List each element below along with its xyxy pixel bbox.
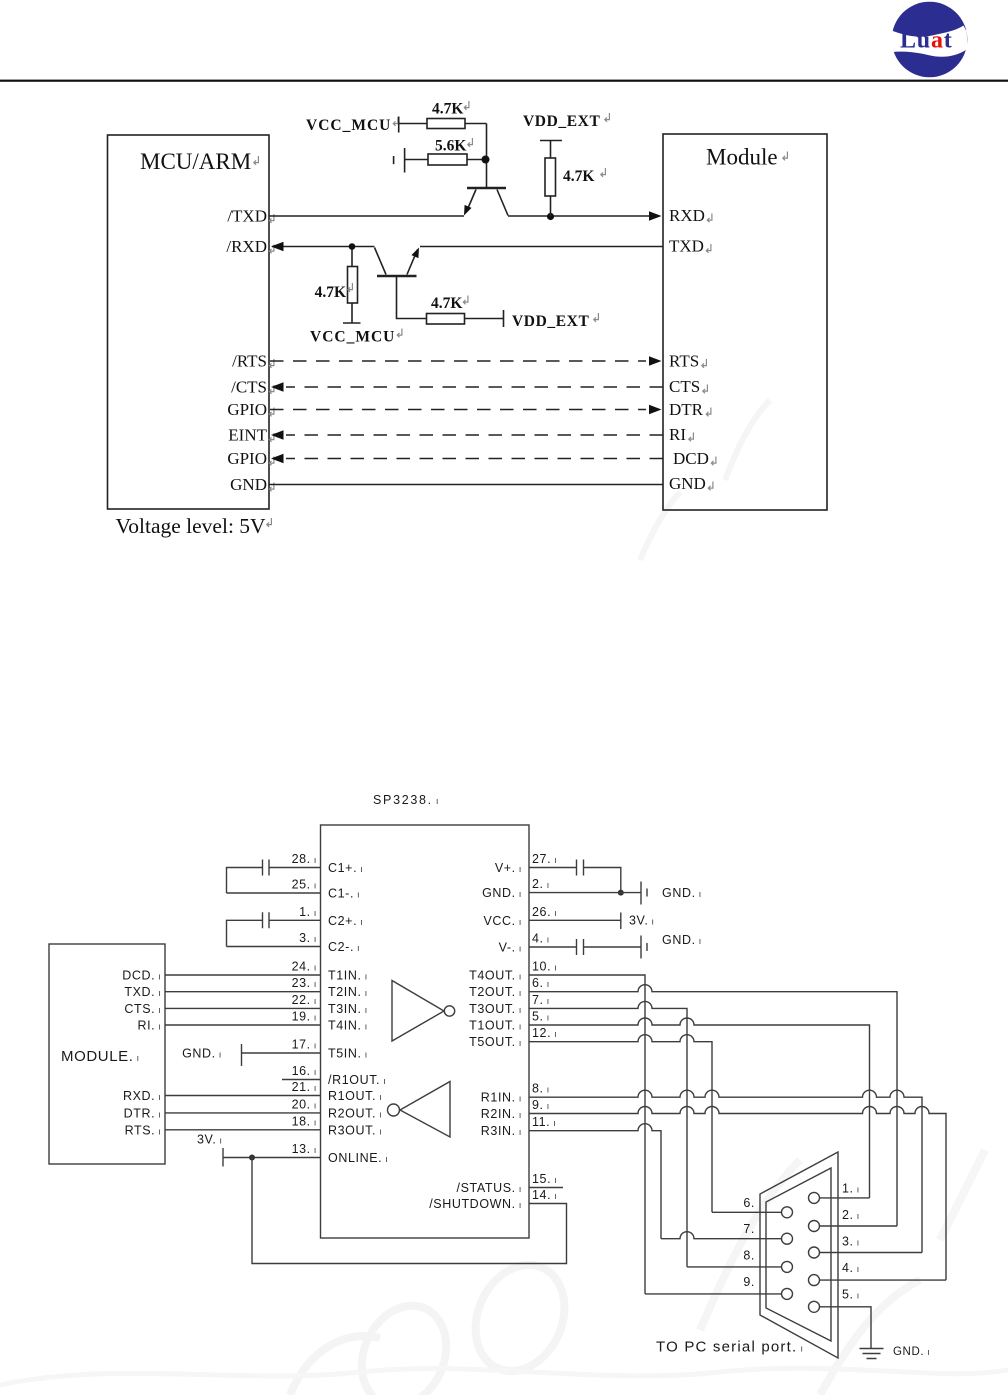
wire MODULE RTS to pin18 R3OUT bbox=[165, 1129, 321, 1131]
svg-text:3V.ı: 3V.ı bbox=[197, 1133, 223, 1147]
capacitor C1 (pins 28-25) bbox=[227, 868, 321, 894]
svg-text:1.ı: 1.ı bbox=[842, 1182, 860, 1196]
wire pin2 GND bbox=[529, 892, 641, 894]
svg-text:8.ı: 8.ı bbox=[532, 1082, 550, 1096]
arrowhead into Module RXD bbox=[649, 211, 662, 221]
svg-text:VDD_EXT: VDD_EXT bbox=[512, 313, 589, 330]
svg-text:GND.ı: GND.ı bbox=[482, 886, 522, 900]
earth ground symbol bbox=[860, 1349, 884, 1359]
svg-text:GPIO: GPIO bbox=[227, 400, 267, 419]
svg-text:R2IN.ı: R2IN.ı bbox=[481, 1107, 522, 1121]
wire DB9 pin6 bbox=[712, 1211, 782, 1213]
svg-text:4.7K: 4.7K bbox=[432, 101, 463, 118]
svg-text:6.: 6. bbox=[743, 1196, 755, 1210]
svg-text:T1IN.ı: T1IN.ı bbox=[328, 969, 368, 983]
capacitor C2 (pins 1-3) bbox=[227, 920, 321, 946]
MODULE box bbox=[49, 944, 165, 1164]
IC U1 SP3238 bbox=[321, 825, 530, 1238]
svg-text:C2+.ı: C2+.ı bbox=[328, 914, 363, 928]
svg-text:Voltage level: 5V: Voltage level: 5V bbox=[116, 514, 267, 538]
svg-text:GPIO: GPIO bbox=[227, 449, 267, 468]
svg-text:TXD.ı: TXD.ı bbox=[124, 985, 161, 999]
svg-text:T5IN.ı: T5IN.ı bbox=[328, 1047, 368, 1061]
svg-text:GND.ı: GND.ı bbox=[662, 933, 702, 947]
svg-text:R3OUT.ı: R3OUT.ı bbox=[328, 1123, 382, 1137]
svg-text:C2-.ı: C2-.ı bbox=[328, 940, 360, 954]
svg-text:/RXD: /RXD bbox=[226, 237, 267, 256]
svg-text:4.7K: 4.7K bbox=[563, 168, 594, 185]
svg-text:/SHUTDOWN.ı: /SHUTDOWN.ı bbox=[429, 1197, 522, 1211]
terminal bar VDD_EXT bbox=[540, 140, 562, 142]
wire VCC_MCU to R1 bbox=[399, 123, 427, 125]
wire DB9 pin9 bbox=[645, 1293, 782, 1295]
wire pin25 C1- bbox=[227, 892, 321, 894]
wire MODULE DTR to pin20 R2OUT bbox=[165, 1112, 321, 1114]
wire DB9 pin4 bbox=[820, 1279, 947, 1281]
wire R4 to VDD_EXT terminal bbox=[465, 318, 504, 320]
svg-text:12.ı: 12.ı bbox=[532, 1026, 557, 1040]
DB9 pin 7 circle bbox=[782, 1233, 793, 1244]
svg-text:8.: 8. bbox=[743, 1249, 755, 1263]
svg-text:Module: Module bbox=[706, 145, 778, 170]
wire GND to pin17 T5IN bbox=[242, 1052, 321, 1054]
resistor R4 4.7K (base) bbox=[427, 314, 465, 325]
svg-text:5.ı: 5.ı bbox=[532, 1010, 550, 1024]
MCU/ARM box U_MCU bbox=[108, 135, 270, 509]
svg-text:CTS: CTS bbox=[669, 377, 700, 396]
wire pin6 T2OUT to DB9 pin2 bbox=[529, 985, 897, 1226]
wire R3IN vertical to DB9 pin7 with hop bbox=[661, 1232, 782, 1239]
svg-text:20.ı: 20.ı bbox=[292, 1097, 317, 1111]
wire MODULE RXD to pin21 R1OUT bbox=[165, 1095, 321, 1097]
svg-text:SP3238.ı: SP3238.ı bbox=[373, 793, 440, 807]
terminal bar VCC_MCU 2 bbox=[343, 322, 361, 324]
svg-text:C1+.ı: C1+.ı bbox=[328, 861, 363, 875]
svg-text:/R1OUT.ı: /R1OUT.ı bbox=[328, 1073, 386, 1087]
wire pin5 T1OUT to DB9 pin1 bbox=[529, 1018, 870, 1198]
svg-text:MODULE.ı: MODULE.ı bbox=[61, 1048, 140, 1065]
svg-text:26.ı: 26.ı bbox=[532, 905, 557, 919]
junction dot 3V/shutdown loop bbox=[249, 1155, 255, 1161]
svg-text:DCD: DCD bbox=[673, 449, 709, 468]
wire pin7 T3OUT down to DB9 pin8 bbox=[529, 1001, 687, 1266]
svg-text:V+.ı: V+.ı bbox=[495, 861, 522, 875]
inverter gate (receiver) bbox=[400, 1082, 450, 1138]
svg-text:T4IN.ı: T4IN.ı bbox=[328, 1019, 368, 1033]
svg-text:9.: 9. bbox=[743, 1275, 755, 1289]
wire pin11 R3IN to DB9 pin7 bbox=[529, 1124, 661, 1239]
svg-text:CTS.ı: CTS.ı bbox=[124, 1002, 161, 1016]
resistor R5 4.7K (RXD pulldown to VCC_MCU) bbox=[351, 249, 353, 267]
wire /TXD from MCU to Q1 emitter bbox=[269, 215, 464, 217]
DB9 pin 1 circle bbox=[809, 1192, 820, 1203]
svg-text:VCC.ı: VCC.ı bbox=[483, 914, 522, 928]
wire RI to EINT (dashed) bbox=[286, 434, 663, 436]
terminal bar 5.6K bbox=[404, 148, 406, 173]
wire CTS to /CTS (dashed) bbox=[286, 386, 663, 388]
DB9 pin 6 circle bbox=[782, 1207, 793, 1218]
stub pin15 /STATUS bbox=[529, 1187, 563, 1189]
svg-text:/CTS: /CTS bbox=[231, 378, 267, 397]
svg-text:2.ı: 2.ı bbox=[532, 877, 550, 891]
DB9 pin 8 circle bbox=[782, 1261, 793, 1272]
svg-text:GND.ı: GND.ı bbox=[182, 1047, 222, 1061]
svg-text:10.ı: 10.ı bbox=[532, 960, 557, 974]
svg-text:VDD_EXT: VDD_EXT bbox=[523, 113, 600, 130]
svg-text:TO PC serial port.ı: TO PC serial port.ı bbox=[656, 1339, 804, 1356]
svg-text:14.ı: 14.ı bbox=[532, 1188, 557, 1202]
svg-text:16.ı: 16.ı bbox=[292, 1064, 317, 1078]
svg-text:T2OUT.ı: T2OUT.ı bbox=[469, 985, 522, 999]
svg-text:/TXD: /TXD bbox=[227, 207, 267, 226]
svg-text:TXD: TXD bbox=[669, 237, 704, 256]
svg-text:RI.ı: RI.ı bbox=[137, 1019, 161, 1033]
Module box U_MOD bbox=[663, 134, 827, 510]
wire MODULE RI to pin19 T4IN bbox=[165, 1024, 321, 1026]
svg-text:R1IN.ı: R1IN.ı bbox=[481, 1091, 522, 1105]
wire DB9 pin5 to earth ground bbox=[820, 1307, 872, 1349]
DB9 connector outline bbox=[760, 1152, 838, 1358]
wire to R2 bbox=[405, 159, 428, 161]
stub pin16 /R1OUT bbox=[282, 1079, 321, 1081]
svg-text:/STATUS.ı: /STATUS.ı bbox=[457, 1181, 522, 1195]
svg-text:24.ı: 24.ı bbox=[292, 960, 317, 974]
wire MODULE CTS to pin22 T3IN bbox=[165, 1007, 321, 1009]
svg-text:1.ı: 1.ı bbox=[299, 905, 317, 919]
wire Module TXD to Q2 emitter bbox=[420, 246, 663, 248]
svg-text:4.ı: 4.ı bbox=[842, 1261, 860, 1275]
svg-text:11.ı: 11.ı bbox=[532, 1115, 557, 1129]
svg-text:T2IN.ı: T2IN.ı bbox=[328, 985, 368, 999]
wire 3V to pin13 ONLINE bbox=[223, 1157, 321, 1159]
svg-text:9.ı: 9.ı bbox=[532, 1098, 550, 1112]
DB9 pin 9 circle bbox=[782, 1288, 793, 1299]
wire pin12 T5OUT down to DB9 pin6 bbox=[529, 1035, 712, 1213]
wire Q2 base down bbox=[397, 276, 427, 319]
svg-text:T3IN.ı: T3IN.ı bbox=[328, 1002, 368, 1016]
wire R1 to base node bbox=[465, 123, 487, 125]
svg-text:3.ı: 3.ı bbox=[842, 1235, 860, 1249]
wire pin3 C2- bbox=[227, 946, 321, 948]
buffer gate (transmitter) bbox=[392, 981, 444, 1042]
wire MODULE DCD to pin24 T1IN bbox=[165, 974, 321, 976]
wire DB9 pin2 bbox=[820, 1225, 898, 1227]
wire R2 to base node bbox=[467, 159, 487, 161]
svg-text:22.ı: 22.ı bbox=[292, 993, 317, 1007]
wire pin10 T4OUT down to DB9 pin9 bbox=[529, 975, 645, 1294]
3V terminal (VCC) bbox=[620, 913, 622, 930]
svg-text:C1-.ı: C1-.ı bbox=[328, 887, 360, 901]
svg-text:23.ı: 23.ı bbox=[292, 976, 317, 990]
svg-text:EINT: EINT bbox=[228, 426, 267, 445]
svg-text:R1OUT.ı: R1OUT.ı bbox=[328, 1089, 382, 1103]
arrowhead into MCU /RXD bbox=[271, 242, 284, 252]
svg-text:17.ı: 17.ı bbox=[292, 1038, 317, 1052]
wire GND to GND bbox=[269, 484, 663, 486]
DB9 pin 4 circle bbox=[809, 1275, 820, 1286]
wire pin26 VCC to 3V bbox=[529, 919, 621, 921]
wire MODULE TXD to pin23 T2IN bbox=[165, 991, 321, 993]
svg-text:GND: GND bbox=[669, 474, 706, 493]
DB9 pin 3 circle bbox=[809, 1247, 820, 1258]
wire DB9 pin1 bbox=[820, 1197, 870, 1199]
svg-text:DCD.ı: DCD.ı bbox=[122, 969, 161, 983]
svg-text:4.ı: 4.ı bbox=[532, 932, 550, 946]
wire R3 to TXD wire bbox=[550, 196, 552, 216]
svg-text:R3IN.ı: R3IN.ı bbox=[481, 1124, 522, 1138]
resistor R2 5.6K bbox=[428, 154, 467, 165]
svg-text:V-.ı: V-.ı bbox=[499, 941, 522, 955]
svg-text:3V.ı: 3V.ı bbox=[629, 914, 655, 928]
svg-text:GND.ı: GND.ı bbox=[662, 886, 702, 900]
watermark faint curves bbox=[0, 400, 1008, 1400]
wire /RTS to RTS (dashed) bbox=[270, 360, 646, 362]
svg-text:3.ı: 3.ı bbox=[299, 931, 317, 945]
svg-text:VCC_MCU: VCC_MCU bbox=[310, 329, 395, 346]
svg-text:R2OUT.ı: R2OUT.ı bbox=[328, 1106, 382, 1120]
wire DB9 pin8 bbox=[687, 1266, 782, 1268]
svg-text:21.ı: 21.ı bbox=[292, 1080, 317, 1094]
transistor Q2 bbox=[375, 246, 423, 276]
svg-text:/RTS: /RTS bbox=[232, 352, 267, 371]
svg-text:6.ı: 6.ı bbox=[532, 976, 550, 990]
svg-text:DTR.ı: DTR.ı bbox=[124, 1106, 162, 1120]
svg-text:RI: RI bbox=[669, 425, 686, 444]
svg-text:18.ı: 18.ı bbox=[292, 1114, 317, 1128]
wire pin9 R2IN to DB9 pin4 bbox=[529, 1107, 946, 1281]
wire Q2 to MCU /RXD bbox=[272, 246, 375, 248]
ground terminal (pin4) bbox=[641, 936, 647, 959]
ground tick 5.6K bbox=[393, 156, 395, 164]
wire DCD to GPIO (dashed) bbox=[286, 458, 663, 460]
svg-text:RXD.ı: RXD.ı bbox=[123, 1089, 162, 1103]
svg-text:5.ı: 5.ı bbox=[842, 1288, 860, 1302]
wire loop ONLINE to /SHUTDOWN pin14 bbox=[252, 1158, 567, 1264]
svg-text:4.7K: 4.7K bbox=[431, 295, 462, 312]
capacitor C4 (pin4 V-) bbox=[529, 946, 641, 948]
header rule bbox=[0, 80, 1008, 82]
svg-text:RXD: RXD bbox=[669, 206, 705, 225]
capacitor C3 (pin27 V+) bbox=[529, 868, 621, 893]
svg-text:25.ı: 25.ı bbox=[292, 878, 317, 892]
svg-text:13.ı: 13.ı bbox=[292, 1142, 317, 1156]
svg-text:RTS.ı: RTS.ı bbox=[125, 1123, 162, 1137]
svg-text:T5OUT.ı: T5OUT.ı bbox=[469, 1035, 522, 1049]
junction dot base divider bbox=[482, 156, 490, 164]
svg-text:T1OUT.ı: T1OUT.ı bbox=[469, 1019, 522, 1033]
svg-text:19.ı: 19.ı bbox=[292, 1010, 317, 1024]
svg-text:4.7K: 4.7K bbox=[315, 284, 346, 301]
DB9 pin 2 circle bbox=[809, 1221, 820, 1232]
ground terminal (pin2) bbox=[641, 882, 647, 905]
svg-text:7.ı: 7.ı bbox=[532, 993, 550, 1007]
junction dot V+ cap to GND bbox=[618, 890, 624, 896]
svg-text:Luat: Luat bbox=[900, 28, 953, 54]
svg-text:7.: 7. bbox=[743, 1222, 755, 1236]
svg-text:T3OUT.ı: T3OUT.ı bbox=[469, 1002, 522, 1016]
wire GPIO to DTR (dashed) bbox=[270, 409, 646, 411]
terminal bar VCC_MCU bbox=[398, 117, 400, 133]
svg-text:15.ı: 15.ı bbox=[532, 1172, 557, 1186]
transistor Q1 bbox=[461, 124, 508, 218]
wire VDD_EXT down bbox=[550, 141, 552, 159]
svg-text:5.6K: 5.6K bbox=[435, 138, 466, 155]
terminal bar VDD_EXT 2 bbox=[503, 310, 505, 327]
company logo Luat bbox=[891, 2, 967, 78]
svg-text:GND.ı: GND.ı bbox=[893, 1346, 930, 1358]
svg-text:RTS: RTS bbox=[669, 352, 699, 371]
svg-text:ONLINE.ı: ONLINE.ı bbox=[328, 1151, 388, 1165]
svg-text:2.ı: 2.ı bbox=[842, 1208, 860, 1222]
svg-text:VCC_MCU: VCC_MCU bbox=[306, 117, 391, 134]
svg-text:GND: GND bbox=[230, 475, 267, 494]
svg-text:T4OUT.ı: T4OUT.ı bbox=[469, 969, 522, 983]
junction dot RXD/pulldown bbox=[349, 243, 356, 250]
wire Q1 collector to Module RXD bbox=[508, 215, 650, 217]
junction dot TXD/pullup bbox=[547, 213, 554, 220]
resistor R1 4.7K (top pull-up) bbox=[427, 119, 465, 129]
resistor R3 4.7K (RXD pull-up) bbox=[545, 158, 556, 196]
wire pin8 R1IN to DB9 pin3 bbox=[529, 1090, 922, 1252]
DB9 pin 5 circle bbox=[809, 1301, 820, 1312]
wire DB9 pin3 bbox=[820, 1252, 923, 1254]
svg-text:28.ı: 28.ı bbox=[292, 852, 317, 866]
svg-text:DTR: DTR bbox=[669, 400, 704, 419]
svg-text:MCU/ARM: MCU/ARM bbox=[140, 149, 251, 174]
svg-text:27.ı: 27.ı bbox=[532, 852, 557, 866]
